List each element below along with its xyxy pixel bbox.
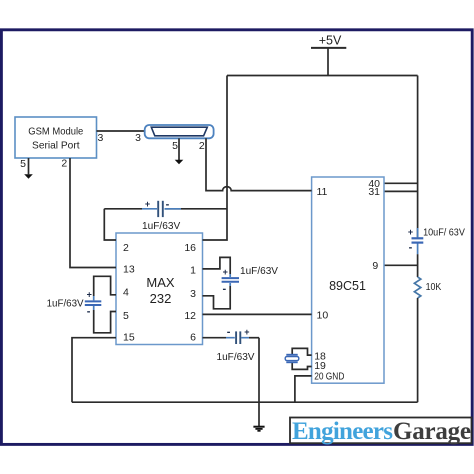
svg-text:13: 13 xyxy=(123,263,135,275)
ground arrow GSM pin5 xyxy=(24,174,33,179)
svg-text:-: - xyxy=(222,283,226,295)
wire right vertical from rail to 10uF cap xyxy=(417,76,419,238)
svg-text:3: 3 xyxy=(98,132,104,144)
svg-text:Serial Port: Serial Port xyxy=(32,139,80,151)
logo EngineersGarage xyxy=(290,418,472,446)
svg-text:4: 4 xyxy=(123,287,129,299)
capacitor C1 1uF/63V (top) xyxy=(104,199,227,233)
svg-text:5: 5 xyxy=(20,158,26,170)
ground arrow DB9 pin5 xyxy=(175,160,184,165)
ground (bars) at C3 xyxy=(253,427,264,431)
svg-text:89C51: 89C51 xyxy=(329,279,366,293)
svg-text:3: 3 xyxy=(190,288,196,300)
svg-text:2: 2 xyxy=(199,140,205,152)
wire GSM pin2 down to MAX232 pin 13 xyxy=(70,158,116,268)
capacitor C4 1uF/63V (left of MAX232, pins 4-5) xyxy=(47,276,116,333)
wire +5V branch vertical x227 down to MAX232 pin16 elbow xyxy=(203,76,228,241)
node +5V xyxy=(311,34,346,76)
capacitor C3 1uF/63V (below, pin 6) xyxy=(203,326,260,363)
wire GSM pin5 stub xyxy=(28,158,30,174)
svg-text:-: - xyxy=(87,306,91,318)
svg-text:+: + xyxy=(223,267,228,277)
svg-text:+5V: +5V xyxy=(319,34,342,48)
svg-text:+: + xyxy=(244,327,249,337)
wire +5V rail top xyxy=(227,75,418,77)
svg-text:Garage: Garage xyxy=(393,418,471,445)
wire 89C51 pin 40 to right vertical xyxy=(384,182,418,184)
svg-text:+: + xyxy=(145,199,150,209)
wire MAX232 pin15 to ground rail xyxy=(72,338,116,403)
wire resistor bottom to ground rail xyxy=(417,298,419,402)
wire 89C51 pin20 GND to ground rail xyxy=(295,376,312,402)
box GSM Module Serial Port xyxy=(15,117,97,158)
svg-text:6: 6 xyxy=(190,332,196,344)
svg-text:1uF/63V: 1uF/63V xyxy=(142,220,180,232)
crystal X1 with brackets to pins 18/19 xyxy=(285,348,311,369)
svg-text:-: - xyxy=(166,199,170,211)
svg-text:3: 3 xyxy=(135,132,141,144)
wire 89C51 pin 9 to right vertical xyxy=(384,264,418,266)
connector J1 DB9 xyxy=(145,125,214,138)
svg-text:1uF/63V: 1uF/63V xyxy=(240,265,278,277)
resistor R1 10K xyxy=(414,277,441,298)
capacitor C5 10uF/63V xyxy=(408,227,465,255)
svg-text:232: 232 xyxy=(150,291,172,306)
svg-text:20 GND: 20 GND xyxy=(314,370,345,382)
svg-text:2: 2 xyxy=(61,157,67,169)
wire 10uF cap to pin9 node and resistor xyxy=(417,254,419,277)
wire ground rail (bottom) xyxy=(72,401,418,403)
wire DB9 pin5 stub xyxy=(178,138,180,160)
ic U1 MAX 232 xyxy=(116,233,203,345)
svg-text:2: 2 xyxy=(123,242,129,254)
svg-text:MAX: MAX xyxy=(146,275,175,290)
svg-text:12: 12 xyxy=(184,310,196,322)
svg-text:5: 5 xyxy=(172,140,178,152)
svg-text:1: 1 xyxy=(190,265,196,277)
svg-text:31: 31 xyxy=(368,186,380,198)
wire C1 left end down to MAX232 pin 2 xyxy=(104,209,116,240)
svg-text:+: + xyxy=(408,227,413,237)
svg-text:Engineers: Engineers xyxy=(292,418,393,445)
svg-text:1uF/63V: 1uF/63V xyxy=(47,298,84,310)
svg-text:5: 5 xyxy=(123,310,129,322)
wire MAX232 pin12 to 89C51 pin10 xyxy=(203,313,312,315)
wire C3 right down to ground rail and ground symbol xyxy=(258,338,260,427)
svg-text:10K: 10K xyxy=(426,281,442,293)
svg-text:16: 16 xyxy=(184,242,196,254)
svg-text:1uF/63V: 1uF/63V xyxy=(217,351,255,363)
wire DB9 pin2 down and right to 89C51 pin 11 (hop over +5V line) xyxy=(206,138,312,190)
svg-text:GSM Module: GSM Module xyxy=(28,125,83,137)
svg-text:10uF/ 63V: 10uF/ 63V xyxy=(423,227,465,239)
svg-text:9: 9 xyxy=(372,260,378,272)
svg-text:-: - xyxy=(227,326,231,338)
wire 89C51 pin 31 to right vertical xyxy=(384,190,418,192)
svg-text:10: 10 xyxy=(317,310,329,322)
svg-text:15: 15 xyxy=(123,332,135,344)
wire GSM pin3 to DB9 xyxy=(97,130,145,132)
svg-text:11: 11 xyxy=(317,186,328,198)
microcontroller U2 89C51 xyxy=(312,177,384,383)
svg-text:-: - xyxy=(409,242,413,254)
capacitor C2 1uF/63V (right of MAX232, pins 1-3) xyxy=(203,257,279,308)
svg-text:+: + xyxy=(87,290,92,300)
